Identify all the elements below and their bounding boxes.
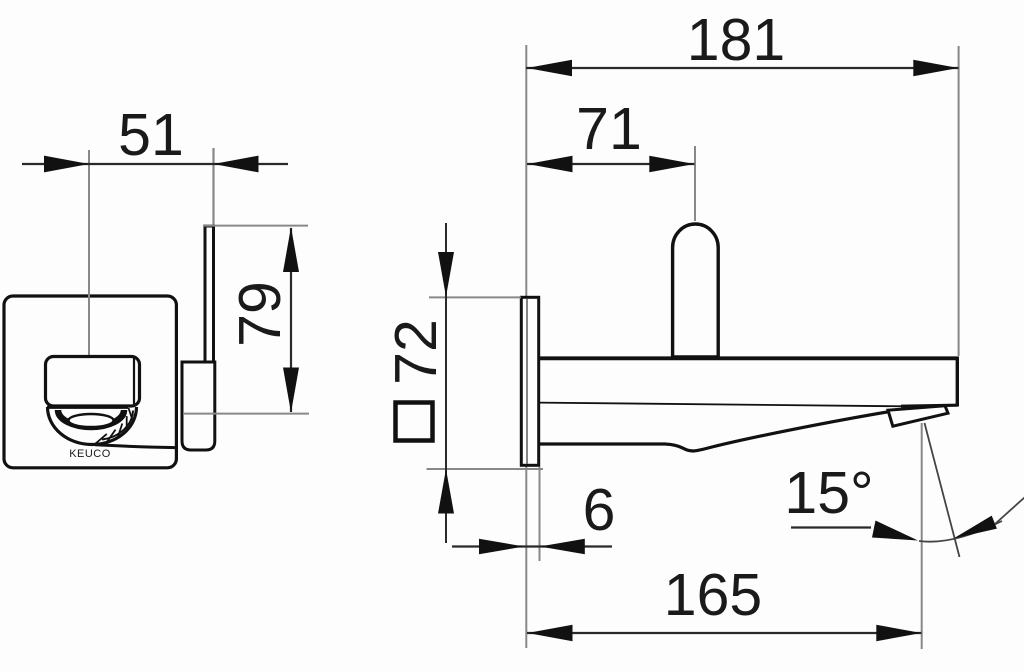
dimension 72: bottom arrow (outside, pointing up) xyxy=(438,469,454,514)
dimension 51: left arrow xyxy=(44,156,89,173)
extension line: 72 top xyxy=(429,296,521,298)
handle hub (side view, rounded bottom block) xyxy=(182,362,215,450)
dimension 72: line xyxy=(445,223,447,543)
dimension 181: line xyxy=(526,67,959,69)
dimension 6: left arrow xyxy=(479,539,524,555)
15 degree arc xyxy=(919,521,1002,542)
wall plane line xyxy=(525,45,527,648)
dimension 6: right arrow xyxy=(540,539,585,555)
svg-text:15°: 15° xyxy=(784,460,873,526)
wall plate (front view, rounded square) xyxy=(4,296,176,468)
dimension 51: line xyxy=(22,163,288,165)
aerator (tilted outlet) xyxy=(888,406,948,426)
svg-text:71: 71 xyxy=(576,96,642,162)
spout tip bottom edge xyxy=(901,405,958,406)
svg-text:79: 79 xyxy=(227,281,293,347)
handle end cap white oval xyxy=(69,414,114,427)
svg-text:181: 181 xyxy=(687,7,785,73)
dimension 72: top arrow (outside, pointing down) xyxy=(438,252,454,297)
handle body (front view rounded rect) xyxy=(46,357,140,407)
extension line: plate front (6 right) xyxy=(539,467,541,561)
15 degree slanted line xyxy=(925,423,960,557)
spout underside curve xyxy=(539,411,891,451)
svg-text:KEUCO: KEUCO xyxy=(69,448,111,460)
dimension 79: bottom arrow xyxy=(283,368,299,413)
15 degree arc arrow xyxy=(954,516,997,539)
dimension 72: square symbol xyxy=(396,403,433,441)
dimension 165: line xyxy=(527,632,922,634)
svg-text:165: 165 xyxy=(664,562,762,628)
spout right edge xyxy=(956,357,959,407)
dimension 79: top arrow xyxy=(283,227,299,272)
handle rim crescent xyxy=(102,411,133,440)
handle rim hatching xyxy=(95,408,133,444)
dimension 6: line xyxy=(452,545,612,547)
dimension 71: line xyxy=(527,163,695,165)
extension line: 51 right xyxy=(212,148,214,227)
svg-text:72: 72 xyxy=(383,319,449,385)
dimension 71: right arrow xyxy=(649,156,694,172)
wall plane line inside plate xyxy=(526,299,528,464)
spout top edge xyxy=(539,356,959,360)
handle end cap (semicircle) xyxy=(48,407,137,445)
dimension 165: left arrow xyxy=(528,625,573,641)
dimension 181: right arrow xyxy=(913,60,958,76)
dimension 71: left arrow xyxy=(528,156,573,172)
svg-text:51: 51 xyxy=(118,102,184,168)
extension line: 71 right / lever centerline xyxy=(694,146,696,221)
dimension 51: right arrow xyxy=(214,156,259,173)
extension line: 79 top xyxy=(204,225,308,227)
dimension 165: right arrow xyxy=(876,625,921,641)
15 degree arc tail xyxy=(995,497,1024,524)
handle inner right edge xyxy=(133,358,135,404)
extension line: 181 right / spout end xyxy=(958,46,960,356)
spout bottom inner line xyxy=(539,403,903,407)
dimension 181: left arrow xyxy=(527,60,572,76)
15 degree leader line xyxy=(791,526,871,528)
lever blade (side view) xyxy=(205,226,214,362)
handle underside edge to plate xyxy=(95,445,176,448)
handle bottom thick edge xyxy=(47,406,128,409)
lever (side view capsule) xyxy=(673,224,719,357)
wall plate (side view) xyxy=(521,297,538,465)
svg-text:6: 6 xyxy=(583,477,616,543)
extension line: 72 bottom xyxy=(427,468,544,470)
extension line: 79 bottom xyxy=(183,413,309,415)
extension line: handle centerline (51 left) xyxy=(88,150,90,356)
handle end cap inner dark band xyxy=(58,410,124,427)
15 degree leader arrow xyxy=(872,521,918,541)
dimension 79: line xyxy=(290,228,292,412)
extension line: outlet vertical reference xyxy=(921,423,923,649)
